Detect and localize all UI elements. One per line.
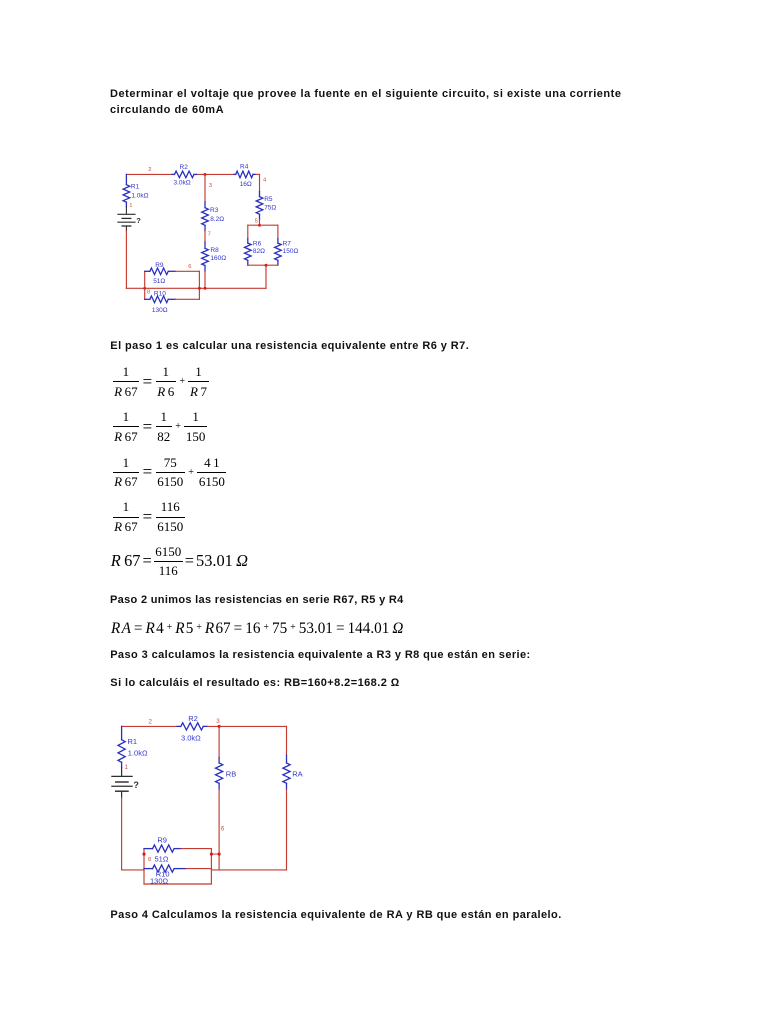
heading paso 3: [110, 649, 530, 661]
battery V1: [125, 207, 127, 214]
resistor R2: [172, 173, 175, 175]
svg-text:RA: RA: [292, 769, 302, 778]
resistor RB: [218, 758, 220, 764]
resistor R2: [177, 725, 181, 727]
R9R10 box left vertical: [143, 849, 145, 884]
svg-text:?: ?: [133, 780, 139, 790]
svg-text:82Ω: 82Ω: [253, 248, 265, 255]
svg-text:8: 8: [148, 857, 151, 863]
wire R10 to box right: [175, 298, 199, 300]
svg-text:1.0kΩ: 1.0kΩ: [131, 193, 148, 200]
node 3 junction dot: [218, 725, 221, 728]
svg-text:2: 2: [148, 167, 151, 173]
resistor RA: [286, 755, 288, 763]
resistor R1: [125, 174, 127, 184]
svg-text:3.0kΩ: 3.0kΩ: [174, 180, 191, 187]
svg-text:130Ω: 130Ω: [150, 877, 169, 886]
node 8 junction dot: [143, 287, 146, 290]
circuit 1: [104, 156, 304, 322]
resistor R7: [277, 239, 279, 244]
resistor R4: [234, 173, 236, 175]
R9R10 box right vertical: [198, 271, 200, 299]
equation R67 = 6150/116 = 53.01 ohm: [111, 546, 248, 577]
wire bottom bus right: [211, 869, 286, 871]
junction dot R8 bottom on bus: [204, 287, 207, 290]
resistor R10: [145, 298, 150, 300]
resistor R3: [204, 202, 206, 208]
resistor R5: [259, 192, 261, 197]
battery V1: [121, 767, 123, 776]
resistor R10: [144, 868, 153, 870]
svg-text:R2: R2: [180, 164, 189, 171]
wire down from R6R7 to bus: [265, 265, 267, 288]
svg-text:8.2Ω: 8.2Ω: [210, 216, 224, 223]
svg-text:R5: R5: [264, 196, 273, 203]
heading paso 4: [110, 909, 561, 921]
svg-text:R8: R8: [210, 247, 219, 254]
svg-text:3.0kΩ: 3.0kΩ: [181, 734, 201, 743]
wire R5 to node 5: [259, 220, 261, 226]
wire R9 to box right: [175, 270, 199, 272]
svg-text:150Ω: 150Ω: [283, 248, 299, 255]
wire bottom left to box: [122, 869, 144, 871]
wire left side down: [125, 231, 127, 288]
svg-text:8: 8: [147, 290, 150, 296]
heading paso 1: [110, 340, 469, 352]
wire RA to bottom bus: [286, 790, 288, 870]
svg-text:2: 2: [149, 718, 153, 725]
svg-text:R3: R3: [210, 207, 219, 214]
svg-text:?: ?: [136, 216, 141, 225]
svg-text:R1: R1: [131, 184, 140, 191]
svg-text:160Ω: 160Ω: [210, 255, 226, 262]
wire R9 to box right: [181, 848, 211, 850]
junction dot box right on bus: [198, 287, 201, 290]
svg-text:6: 6: [221, 825, 225, 832]
svg-text:3: 3: [209, 183, 212, 189]
wire parallel box top: [248, 224, 278, 226]
svg-text:1: 1: [125, 764, 129, 771]
svg-text:5: 5: [255, 219, 258, 225]
resistor R9: [144, 848, 153, 850]
wire right vertical: [286, 726, 288, 755]
wire top bus: [122, 725, 177, 727]
svg-text:51Ω: 51Ω: [153, 278, 165, 285]
wire RB to bottom: [218, 790, 220, 870]
svg-text:16Ω: 16Ω: [240, 181, 252, 188]
svg-text:51Ω: 51Ω: [155, 855, 169, 864]
svg-text:R10: R10: [154, 291, 166, 298]
wire R8 to bottom bus: [204, 271, 206, 288]
svg-text:4: 4: [263, 178, 267, 184]
resistor R9: [145, 270, 150, 272]
wire parallel box bottom: [248, 264, 278, 266]
resistor R6: [247, 239, 249, 244]
jumper wire with dots: [211, 853, 219, 855]
svg-text:R2: R2: [188, 714, 198, 723]
equation 1/R67 = 1/82 + 1/150: [113, 411, 207, 442]
svg-text:R1: R1: [128, 737, 138, 746]
svg-text:1: 1: [129, 203, 132, 209]
R9R10 box right vertical: [210, 849, 212, 884]
equation 1/R67 = 116/6150: [113, 501, 185, 532]
svg-text:R4: R4: [240, 164, 249, 171]
wire box bottom: [144, 883, 211, 885]
equation 1/R67 = 75/6150 + 41/6150: [113, 457, 227, 488]
svg-text:3: 3: [216, 718, 220, 725]
heading paso 2: [110, 594, 404, 606]
wire R10 to box right: [186, 868, 211, 870]
junction dot node 8: [142, 853, 145, 856]
wire RB branch top: [218, 726, 220, 757]
svg-text:R9: R9: [157, 835, 167, 844]
svg-text:7: 7: [208, 232, 211, 238]
wire right vertical node 4: [259, 174, 261, 191]
node 5 junction dot: [258, 224, 261, 227]
R9R10 box left vertical: [144, 271, 146, 299]
wire bottom bus: [126, 287, 266, 289]
svg-text:1.0kΩ: 1.0kΩ: [128, 748, 148, 757]
resistor R8: [204, 242, 206, 248]
wire middle vertical node 3 to R3: [204, 174, 206, 202]
junction dot below R6R7: [265, 264, 268, 267]
wire left side down: [121, 798, 123, 870]
svg-text:R9: R9: [155, 262, 164, 269]
title paragraph: [110, 87, 622, 119]
node 3 junction dot: [204, 173, 207, 176]
svg-text:RB: RB: [226, 769, 236, 778]
circuit 2: [103, 703, 308, 895]
node 7 wire: [204, 231, 206, 242]
resistor R1: [121, 726, 123, 739]
equation RA = R4+R5+R67: [111, 619, 403, 639]
svg-text:130Ω: 130Ω: [152, 307, 168, 314]
svg-text:6: 6: [188, 264, 191, 270]
wire top bus node 2: [126, 173, 172, 175]
svg-text:R6: R6: [253, 241, 262, 248]
equation 1/R67 = 1/R6 + 1/R7: [113, 366, 209, 397]
heading resultado: [110, 677, 399, 689]
svg-text:R7: R7: [283, 241, 292, 248]
svg-text:75Ω: 75Ω: [264, 204, 276, 211]
